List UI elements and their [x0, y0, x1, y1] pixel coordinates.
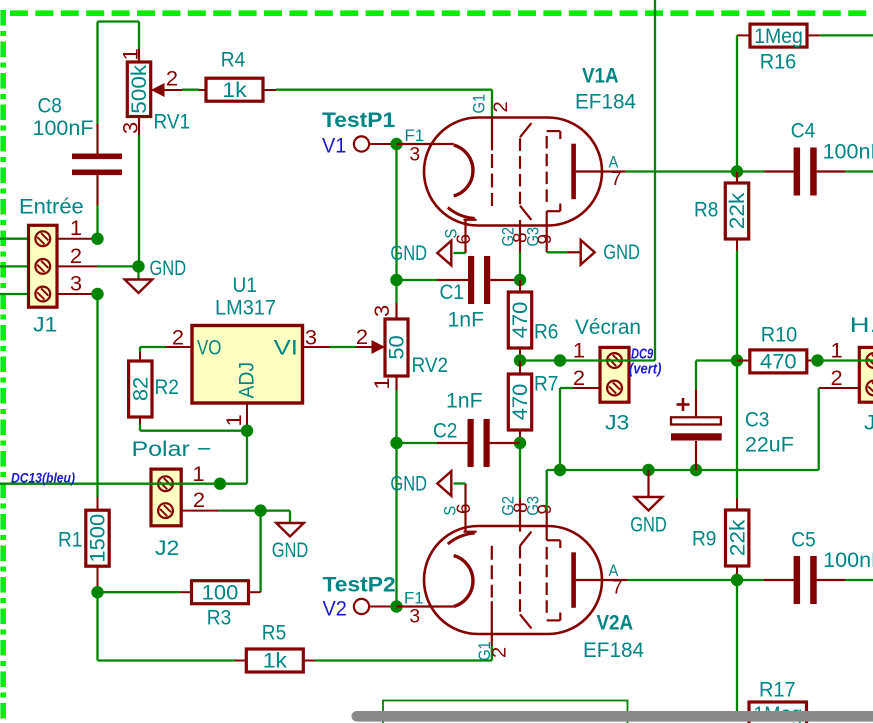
capacitor C1	[437, 256, 520, 332]
svg-text:C5: C5	[791, 528, 815, 552]
resistor R5	[246, 621, 303, 673]
wire V1A S to GND	[454, 252, 466, 254]
wire J2 node down to R3	[259, 511, 261, 593]
svg-text:R10: R10	[761, 323, 798, 347]
connector J3	[573, 315, 641, 435]
wire J2 pin1 node	[220, 483, 247, 485]
svg-text:J4: J4	[864, 411, 873, 435]
wire ground rail	[547, 469, 819, 471]
ground at J1	[125, 256, 186, 293]
resistor R5 left pin	[235, 660, 246, 662]
wire RV1 pin1	[138, 22, 140, 50]
junction ADJ node	[241, 425, 253, 437]
svg-text:TestP1: TestP1	[322, 108, 395, 132]
wire U1 VI to RV2	[330, 346, 357, 348]
junction J2 pin1	[214, 478, 226, 490]
wire R6R7 node to J3	[520, 359, 655, 361]
wire net C8-RV1 top	[98, 20, 140, 22]
wire V1A G2 down	[519, 252, 521, 280]
wire RV1 to R4	[182, 89, 199, 91]
tube V2A EF184	[397, 484, 645, 663]
svg-text:GND: GND	[390, 241, 427, 265]
svg-text:V2A: V2A	[597, 611, 634, 635]
resistor R6 bottom pin	[519, 348, 521, 361]
svg-text:9: 9	[534, 234, 556, 245]
svg-text:22k: 22k	[725, 192, 749, 229]
resistor R9 top pin	[736, 499, 738, 511]
junction J2 pin2 node	[254, 504, 266, 516]
J4 pin2	[819, 387, 860, 389]
ground left of V1A	[390, 241, 451, 266]
capacitor C4	[765, 119, 873, 196]
svg-text:GND: GND	[150, 256, 187, 280]
wire node down to R9	[736, 361, 738, 499]
label DC9(vert)	[629, 346, 661, 378]
svg-text:C2: C2	[433, 419, 457, 443]
J3 pin2	[573, 387, 600, 389]
svg-text:J1: J1	[33, 313, 57, 337]
svg-text:22uF: 22uF	[745, 433, 794, 457]
svg-text:Vécran: Vécran	[575, 315, 641, 339]
svg-text:100nF: 100nF	[823, 548, 873, 572]
wire V2A S to GND	[454, 482, 466, 484]
J1 pin1	[57, 238, 92, 240]
resistor R10	[750, 323, 807, 374]
wire R1 down to R5	[98, 592, 236, 660]
U1 VO pin	[166, 346, 192, 348]
junction R6 R7 node	[514, 354, 526, 366]
resistor R6 top pin	[519, 280, 521, 292]
svg-text:100: 100	[202, 580, 239, 604]
svg-text:1nF: 1nF	[448, 308, 485, 332]
svg-text:ADJ: ADJ	[235, 362, 259, 399]
wire C3 top to node	[696, 361, 737, 390]
svg-text:R6: R6	[534, 320, 558, 344]
svg-text:6: 6	[453, 503, 475, 514]
resistor R10 left pin	[737, 360, 750, 362]
svg-text:9: 9	[534, 504, 556, 515]
svg-text:R16: R16	[760, 50, 797, 74]
resistor R10 right pin	[806, 360, 817, 362]
connector J2	[132, 437, 212, 560]
potentiometer RV1	[119, 48, 191, 135]
svg-text:R8: R8	[694, 198, 718, 222]
svg-text:1500: 1500	[86, 514, 110, 563]
svg-text:R17: R17	[759, 678, 796, 702]
svg-text:1Meg: 1Meg	[754, 24, 803, 48]
R17 left pin	[737, 713, 749, 715]
wire RV2 pin1 down	[395, 390, 397, 443]
test point TestP1	[322, 108, 395, 158]
V2A G1 pin lead	[491, 634, 493, 646]
wire J2 pin2 to node	[219, 509, 261, 511]
J1 pin3	[57, 293, 92, 295]
ground right of V1A	[581, 240, 640, 265]
svg-text:V1A: V1A	[582, 64, 619, 88]
wire V1A G3 to GND	[547, 251, 568, 253]
resistor R3	[192, 580, 249, 629]
resistor R1 bottom pin	[97, 566, 99, 592]
svg-text:82: 82	[129, 377, 153, 401]
svg-text:470: 470	[508, 302, 532, 339]
wire R16 left down	[736, 35, 738, 171]
svg-text:Polar −: Polar −	[132, 437, 212, 461]
wire C1 left	[397, 279, 438, 281]
svg-text:R4: R4	[221, 48, 245, 72]
wire R8 down to node	[736, 251, 738, 361]
junction J1 pin1	[91, 233, 103, 245]
svg-text:H.T.: H.T.	[850, 313, 873, 337]
wire TestP2 net vertical	[395, 443, 397, 607]
tube V1A EF184	[397, 64, 637, 254]
svg-text:F1: F1	[405, 126, 425, 145]
wire anode to C5	[737, 579, 764, 581]
resistor R2 top pin	[139, 352, 141, 361]
wire DC13 net	[0, 483, 220, 485]
resistor R3 right pin	[249, 591, 261, 593]
svg-text:1: 1	[831, 339, 843, 363]
svg-text:7: 7	[611, 168, 622, 190]
svg-text:1: 1	[573, 339, 585, 363]
svg-text:500k: 500k	[127, 65, 151, 114]
svg-text:3: 3	[70, 272, 82, 296]
svg-text:R5: R5	[262, 621, 286, 645]
svg-text:VI: VI	[274, 335, 298, 359]
RV2 pin2 lead	[356, 346, 372, 348]
svg-text:C3: C3	[745, 408, 769, 432]
resistor R16	[750, 24, 807, 74]
capacitor C3 22uF	[671, 390, 794, 470]
junction C1 right G2	[514, 274, 526, 286]
wire into J1 pin2 from left	[0, 265, 30, 267]
wire into J1 pin1 from left	[0, 238, 30, 240]
junction C1 left	[390, 274, 402, 286]
svg-text:VO: VO	[197, 335, 221, 359]
junction R1 bottom	[91, 586, 103, 598]
svg-text:2: 2	[573, 366, 585, 390]
J2 pin2	[181, 510, 218, 512]
junction V2A anode node	[731, 574, 743, 586]
wire RV2 pin3 from TestP1 net	[395, 280, 397, 303]
svg-text:GND: GND	[272, 538, 309, 562]
wire into J1 pin3 from left	[0, 293, 30, 295]
junction C2 left	[390, 437, 402, 449]
wire anode to C4	[737, 170, 765, 172]
wire J1 pin3 down	[92, 294, 98, 497]
resistor R4 left pin	[199, 89, 206, 91]
svg-text:6: 6	[453, 234, 475, 245]
resistor R7 top pin	[519, 361, 521, 375]
svg-text:2: 2	[490, 101, 512, 112]
U1 ADJ pin	[246, 403, 248, 431]
svg-text:1: 1	[370, 377, 394, 389]
resistor R1	[58, 510, 110, 566]
wire R1 to R3	[98, 591, 180, 593]
wire ADJ node to J2 pin1	[246, 431, 248, 484]
ground at rail	[630, 470, 667, 537]
wire C5 right to edge	[845, 579, 873, 581]
wire J3 pin2 down	[560, 388, 573, 470]
junction R8 C3 R10 node	[731, 354, 743, 366]
junction TestP1 node	[390, 138, 402, 150]
wire R9 to anode dot	[736, 574, 738, 580]
resistor R9 bottom pin	[736, 566, 738, 574]
resistor R4 pin2 lead	[151, 89, 182, 91]
capacitor C2	[433, 389, 520, 468]
svg-text:3: 3	[410, 606, 421, 628]
svg-text:2: 2	[166, 66, 178, 90]
svg-text:C1: C1	[440, 280, 464, 304]
svg-text:GND: GND	[630, 513, 667, 537]
wire C8 to J1 pin1	[96, 205, 98, 239]
wire R5 to V2A G1	[315, 646, 492, 661]
svg-text:RV2: RV2	[412, 353, 449, 377]
svg-text:100nF: 100nF	[33, 116, 94, 140]
wire C8 upper lead	[96, 22, 98, 125]
svg-text:50: 50	[385, 335, 409, 359]
svg-text:RV1: RV1	[154, 110, 191, 134]
svg-text:R9: R9	[692, 527, 716, 551]
resistor R2	[129, 361, 179, 417]
junction rail C3	[690, 464, 702, 476]
svg-text:(vert): (vert)	[629, 361, 661, 378]
junction R10 J4	[811, 354, 823, 366]
wire J2 node to GND	[261, 511, 290, 523]
svg-text:R3: R3	[207, 606, 231, 630]
svg-text:1k: 1k	[263, 649, 288, 673]
svg-text:3: 3	[305, 325, 317, 349]
wire V2A anode right	[627, 579, 737, 581]
wire R2 to ADJ node	[140, 424, 247, 431]
svg-text:GND: GND	[603, 240, 640, 264]
resistor R9	[692, 510, 749, 566]
svg-text:EF184: EF184	[575, 90, 636, 114]
svg-text:J3: J3	[605, 411, 629, 435]
wire R4 to V1A G1	[276, 90, 492, 119]
U1 VI pin	[303, 346, 330, 348]
ground left of V2A	[390, 471, 451, 496]
svg-text:DC13(bleu): DC13(bleu)	[11, 471, 75, 487]
wire C2 left	[397, 442, 438, 444]
text frame bottom	[383, 701, 628, 723]
wire RV1 pin3 to GND node	[138, 135, 140, 266]
wire R10 to J4 pin1	[818, 359, 873, 361]
svg-text:3: 3	[370, 305, 394, 317]
svg-text:470: 470	[760, 350, 797, 374]
svg-text:2: 2	[70, 244, 82, 268]
V1A G3 gnd lead	[567, 251, 581, 253]
junction J3 pin1 node	[554, 354, 566, 366]
wire anode node vertical	[736, 172, 738, 184]
resistor R3 left pin	[180, 591, 192, 593]
svg-text:2: 2	[172, 325, 184, 349]
capacitor C8	[33, 93, 123, 205]
svg-text:1k: 1k	[222, 78, 247, 102]
svg-text:1: 1	[119, 48, 143, 60]
svg-text:1nF: 1nF	[446, 389, 483, 413]
svg-text:LM317: LM317	[215, 296, 276, 320]
svg-text:2: 2	[356, 325, 368, 349]
resistor R6	[508, 292, 558, 348]
svg-text:1: 1	[70, 216, 82, 240]
wire J1 pin2 to GND	[97, 265, 139, 267]
svg-text:V2: V2	[323, 597, 347, 621]
resistor R1 top pin	[97, 497, 99, 511]
svg-text:3: 3	[410, 144, 421, 166]
regulator U1 LM317	[172, 273, 317, 427]
svg-text:R7: R7	[534, 372, 558, 396]
wire J1 pin1 to node	[92, 238, 98, 240]
svg-text:EF184: EF184	[583, 638, 644, 662]
svg-text:470: 470	[508, 384, 532, 421]
test point TestP2	[323, 573, 396, 621]
wire R16 right to edge	[820, 34, 873, 36]
svg-text:100nF: 100nF	[823, 140, 873, 164]
wire rail to V2A G3	[546, 470, 548, 510]
svg-text:J2: J2	[155, 536, 179, 560]
svg-text:U1: U1	[233, 273, 257, 297]
wire C4 right to edge	[845, 170, 873, 172]
resistor R2 bottom pin	[139, 417, 141, 424]
wire VO to R2	[140, 347, 166, 352]
svg-text:2: 2	[489, 647, 511, 658]
junction anode node	[731, 165, 743, 177]
svg-text:C4: C4	[791, 119, 815, 143]
svg-text:3: 3	[119, 122, 143, 134]
svg-text:R2: R2	[155, 375, 179, 399]
resistor R4	[206, 48, 263, 102]
svg-text:GND: GND	[390, 471, 427, 495]
svg-text:V1: V1	[322, 134, 346, 158]
potentiometer RV2	[356, 303, 448, 390]
resistor R7 bottom pin	[519, 430, 521, 443]
junction rail J3	[554, 464, 566, 476]
junction J1 pin3	[91, 288, 103, 300]
svg-text:2: 2	[193, 488, 205, 512]
svg-text:Entrée: Entrée	[19, 195, 84, 219]
svg-text:22k: 22k	[725, 519, 749, 556]
svg-text:7: 7	[612, 577, 623, 599]
junction TestP2 node	[390, 600, 402, 612]
junction GND node at J1	[132, 260, 144, 272]
resistor R4 right pin	[263, 89, 276, 91]
capacitor C5	[764, 528, 873, 605]
resistor R16 left pin	[737, 34, 750, 36]
svg-text:G1: G1	[470, 94, 489, 114]
resistor R16 right pin	[808, 34, 820, 36]
wire V1A anode to node	[626, 170, 737, 172]
svg-text:1: 1	[222, 414, 246, 426]
resistor R5 right pin	[304, 660, 316, 662]
resistor R17	[749, 678, 807, 723]
connector J1	[19, 195, 84, 337]
wire TestP1 down to C1	[395, 144, 397, 280]
connector J4	[831, 313, 873, 435]
resistor R7	[508, 372, 558, 431]
resistor R8	[694, 183, 749, 239]
ground at J2	[272, 523, 309, 562]
J1 pin2	[57, 265, 97, 267]
svg-text:TestP2: TestP2	[323, 573, 396, 597]
resistor R8 bottom pin	[736, 239, 738, 251]
junction rail GND	[642, 464, 654, 476]
wire from top to J3 pin1	[654, 0, 656, 361]
wire J4 pin2 to rail	[818, 388, 820, 470]
svg-text:R1: R1	[58, 528, 82, 552]
wire anode node down to R17	[736, 580, 738, 713]
junction C2 right	[514, 437, 526, 449]
resistor R8 top pin	[736, 172, 738, 184]
wire V2A G2 up to C2	[519, 443, 521, 499]
svg-text:2: 2	[831, 366, 843, 390]
svg-text:1: 1	[192, 462, 204, 486]
scrollbar	[352, 711, 873, 722]
svg-text:C8: C8	[38, 93, 62, 117]
